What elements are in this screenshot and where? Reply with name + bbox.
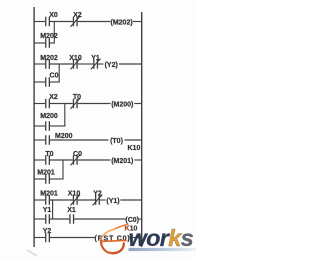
svg-text:(Y2): (Y2) <box>105 62 118 69</box>
contact X1 (NO) rung 7 <box>69 214 74 224</box>
contact Y2 (NC) rung 6 <box>93 195 103 206</box>
svg-text:Y2: Y2 <box>93 191 102 198</box>
svg-text:M201: M201 <box>40 191 58 198</box>
rung 5 parallel branch M201 wires <box>34 160 64 180</box>
contact X2 (NO) rung 3 <box>45 99 50 109</box>
svg-text:C0: C0 <box>50 73 59 80</box>
contact T0 (NO) rung 5 <box>45 155 50 165</box>
rung 5 wire segments <box>34 159 142 161</box>
contact C0 (NO) parallel rung 2 <box>45 77 50 87</box>
contact M201 (NO) rung 6 <box>45 195 50 205</box>
svg-text:Y2: Y2 <box>43 228 52 235</box>
svg-text:X0: X0 <box>49 12 58 19</box>
e-works watermark swirl logo <box>101 224 128 253</box>
rung 6 wire segments <box>34 199 142 201</box>
svg-text:X2: X2 <box>73 12 82 19</box>
contact X0 (NO) rung 1 <box>45 17 50 27</box>
svg-text:X10: X10 <box>69 55 82 62</box>
svg-text:(M201): (M201) <box>111 158 133 165</box>
svg-text:C0: C0 <box>73 151 82 158</box>
rung 3 parallel branch M200 wires <box>34 104 66 127</box>
svg-text:M202: M202 <box>40 55 58 62</box>
contact M202 (NO) rung 2 <box>45 59 50 69</box>
rung 8 wire segments <box>34 237 142 239</box>
svg-text:(C0): (C0) <box>125 217 139 224</box>
svg-text:M201: M201 <box>37 169 55 176</box>
contact T0 (NC) rung 3 <box>70 98 80 109</box>
contact Y2 (NO) rung 8 <box>45 233 50 243</box>
svg-text:works: works <box>129 225 194 251</box>
svg-text:T0: T0 <box>45 151 53 158</box>
svg-text:(M202): (M202) <box>111 19 133 26</box>
svg-text:(M200): (M200) <box>111 101 133 108</box>
svg-text:M202: M202 <box>40 33 58 40</box>
svg-text:X10: X10 <box>68 191 81 198</box>
svg-text:(T0): (T0) <box>110 138 123 145</box>
right power rail <box>141 12 142 247</box>
rung 1 parallel branch M202 wires <box>34 22 55 44</box>
rung 1 wire segments <box>34 21 142 23</box>
contact M200 (NO) rung 4 <box>45 135 50 145</box>
svg-text:Y1: Y1 <box>43 207 52 214</box>
contact X10 (NC) rung 6 <box>70 195 80 206</box>
svg-text:K10: K10 <box>128 145 141 152</box>
rung 7 wire segments <box>34 200 142 220</box>
svg-text:(Y1): (Y1) <box>106 198 119 205</box>
svg-text:Y1: Y1 <box>91 55 100 62</box>
rung 4 wire segments <box>34 139 142 141</box>
contact X2 (NC) rung 1 <box>70 16 80 27</box>
left power rail <box>33 7 34 247</box>
rung 2 wire segments <box>34 63 142 65</box>
svg-text:M200: M200 <box>40 113 58 120</box>
scan smudge bottom-left <box>27 250 37 256</box>
svg-text:T0: T0 <box>73 94 81 101</box>
contact C0 (NC) rung 5 <box>70 155 80 166</box>
svg-text:X2: X2 <box>49 94 58 101</box>
contact Y1 (NO) rung 7 <box>45 214 50 224</box>
e-works watermark gradient bar <box>129 248 197 251</box>
contact Y1 (NC) rung 2 <box>91 59 101 70</box>
rung 2 parallel branch C0 wires <box>34 64 60 83</box>
contact M200 (NO) parallel rung 3 <box>45 121 50 131</box>
contact M201 (NO) parallel rung 5 <box>45 174 50 184</box>
svg-text:X1: X1 <box>67 207 76 214</box>
rung 3 wire segments <box>34 103 142 105</box>
contact M202 (NO) parallel rung 1 <box>45 38 50 48</box>
contact X10 (NC) rung 2 <box>70 59 80 70</box>
svg-text:M200: M200 <box>55 133 73 140</box>
